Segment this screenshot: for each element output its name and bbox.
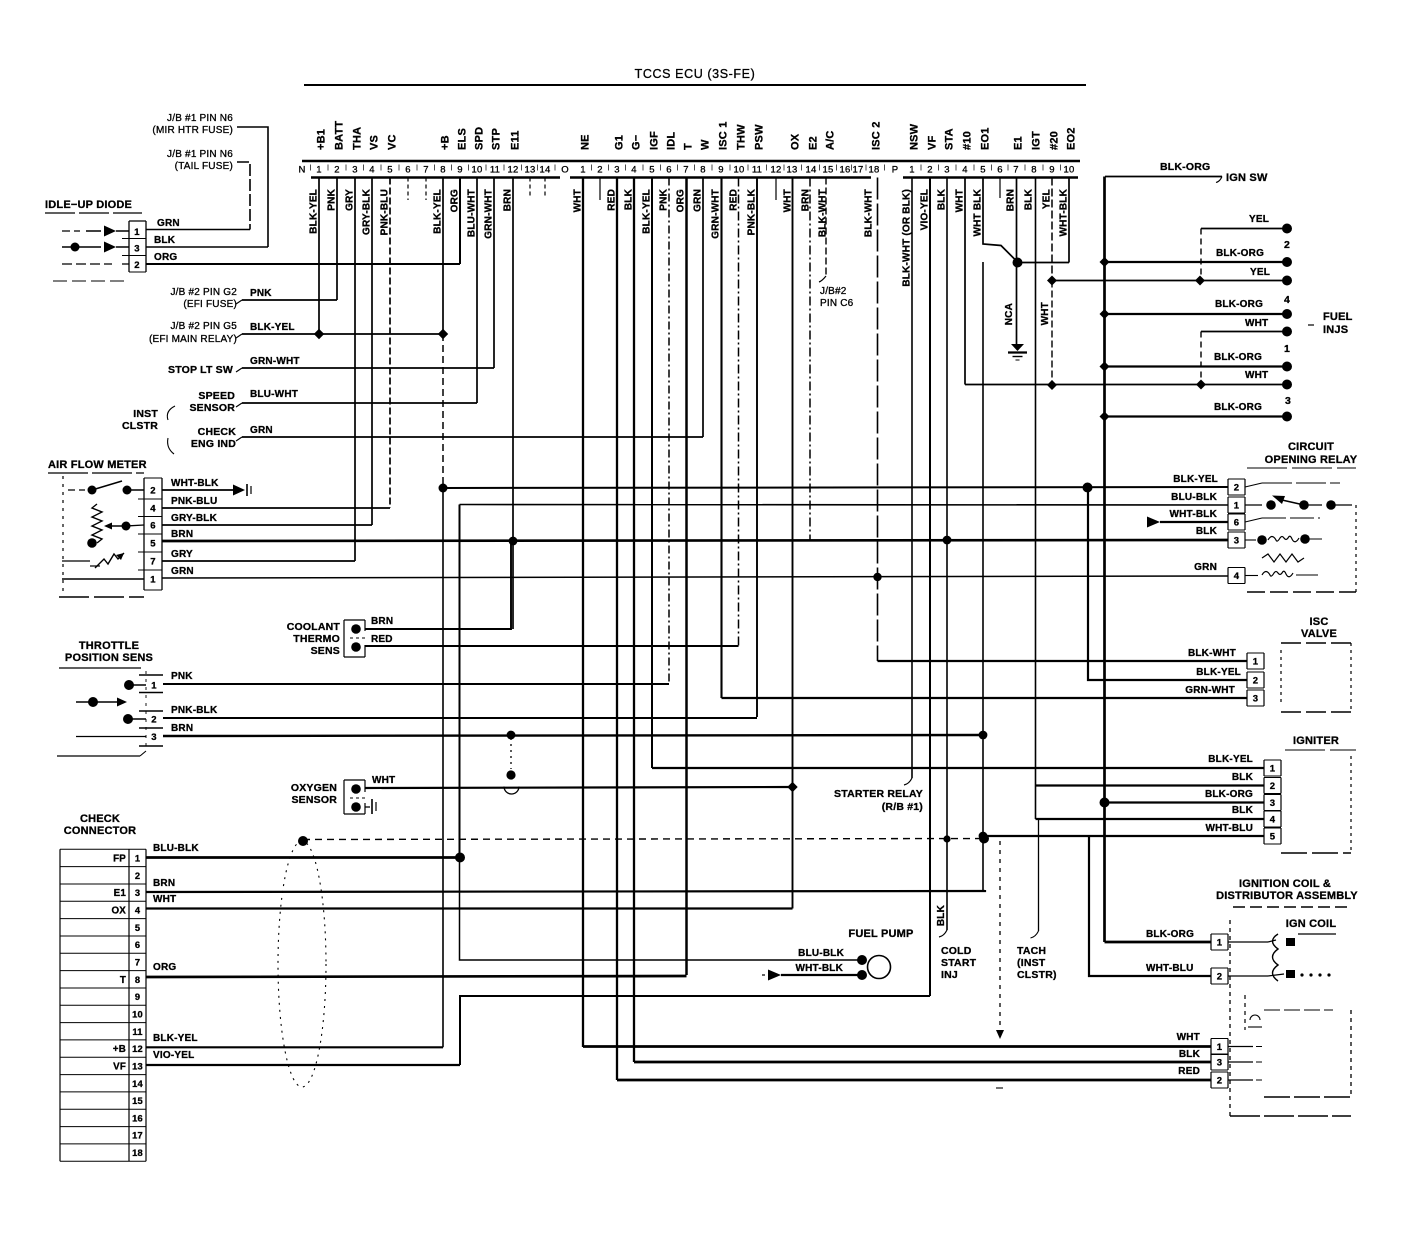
svg-text:WHT: WHT <box>1245 370 1268 381</box>
wire PNK IDL drop <box>668 178 670 684</box>
svg-text:GRY: GRY <box>345 189 356 211</box>
svg-text:G−: G− <box>631 135 643 150</box>
stub g2 pin2 <box>599 178 601 201</box>
svg-text:J/B #2 PIN G5: J/B #2 PIN G5 <box>170 321 237 332</box>
label ORG check <box>153 962 176 973</box>
svg-text:IDLE−UP DIODE: IDLE−UP DIODE <box>45 199 132 211</box>
svg-text:+B: +B <box>440 135 452 150</box>
pin separator ticks <box>310 165 312 171</box>
svg-text:2: 2 <box>1284 239 1290 251</box>
svg-text:BRN: BRN <box>1006 189 1017 211</box>
wire PNK-BLU pin5 VC drop <box>389 178 391 509</box>
STA hook to cold start inj <box>939 930 947 937</box>
svg-text:4: 4 <box>369 165 374 176</box>
svg-text:14: 14 <box>540 165 551 176</box>
svg-text:TCCS ECU (3S-FE): TCCS ECU (3S-FE) <box>635 67 756 81</box>
wire BLK-YEL to igniter pin1 <box>652 767 1264 769</box>
svg-text:(R/B #1): (R/B #1) <box>882 801 923 813</box>
label WHT-BLK relay <box>1170 509 1218 520</box>
svg-text:J/B #1 PIN N6: J/B #1 PIN N6 <box>167 113 233 124</box>
label BLK-WHT isc <box>1188 648 1236 659</box>
wire BLK-YEL IGF drop <box>651 178 653 769</box>
svg-text:WHT-BLK: WHT-BLK <box>1059 188 1070 236</box>
svg-text:T: T <box>683 143 695 150</box>
svg-text:GRN: GRN <box>250 425 273 436</box>
label BLU-BLK relay <box>1171 492 1217 503</box>
wire BRN pin12 E11 drop <box>512 178 514 630</box>
label RED dist <box>1178 1066 1200 1077</box>
ECU connector bar top line <box>302 160 1080 162</box>
wire ORG pin9 ELS drop <box>459 178 461 265</box>
wire MIR HTR FUSE to diode pin3 <box>237 127 268 247</box>
svg-text:3: 3 <box>1285 395 1291 407</box>
dashed drop arrow <box>996 1030 1004 1039</box>
svg-text:BLK-WHT: BLK-WHT <box>1188 648 1236 659</box>
svg-text:+B: +B <box>113 1044 126 1055</box>
svg-text:WHT: WHT <box>1245 318 1268 329</box>
svg-text:14: 14 <box>806 165 817 176</box>
svg-text:1: 1 <box>1217 938 1223 949</box>
check connector signal names <box>111 853 126 1072</box>
label GRN-WHT isc <box>1185 685 1235 696</box>
svg-text:2: 2 <box>1217 1076 1222 1087</box>
label PNK efi fuse <box>250 288 272 299</box>
NSW hook to starter relay <box>904 778 912 785</box>
svg-text:PNK-BLK: PNK-BLK <box>747 188 758 235</box>
idle-up box lower dash <box>53 280 129 282</box>
svg-text:9: 9 <box>718 165 723 176</box>
svg-text:2: 2 <box>334 165 339 176</box>
svg-text:WHT-BLK: WHT-BLK <box>1170 509 1218 520</box>
junction TPS BRN / shield <box>507 731 516 740</box>
label WHT-BLK air flow <box>171 478 219 489</box>
wire WHT OX drop <box>792 178 794 788</box>
svg-text:13: 13 <box>525 165 536 176</box>
label RED coolant <box>371 634 393 645</box>
label IGN COIL <box>1286 918 1337 930</box>
AIR FLOW METER underline <box>48 472 144 474</box>
wire GRN-WHT ISC1 drop <box>720 178 722 699</box>
label WHT-BLK pump <box>796 963 844 974</box>
wire BLK-WHT NSW drop <box>911 178 913 779</box>
svg-text:9: 9 <box>457 165 462 176</box>
wire BLK-ORG main vertical <box>1103 177 1106 943</box>
air flow box outline <box>62 476 64 592</box>
svg-text:VF: VF <box>927 135 939 150</box>
svg-text:WHT: WHT <box>372 775 395 786</box>
svg-text:BLK: BLK <box>1232 805 1254 816</box>
junction #20 / injector YEL row <box>1047 276 1057 286</box>
svg-text:WHT: WHT <box>1177 1032 1200 1043</box>
svg-text:BLK-YEL: BLK-YEL <box>250 322 295 333</box>
label 1 <box>1284 343 1290 355</box>
svg-text:BLK-ORG: BLK-ORG <box>1146 929 1194 940</box>
svg-text:(EFI FUSE): (EFI FUSE) <box>183 299 237 310</box>
svg-text:YEL: YEL <box>1250 267 1270 278</box>
label COOLANT THERMO SENS <box>287 621 341 657</box>
wire WHT OX to check connector <box>792 787 794 909</box>
wire PNK efi fuse to BATT <box>242 299 337 301</box>
svg-text:AIR FLOW METER: AIR FLOW METER <box>48 459 147 471</box>
svg-text:CHECK: CHECK <box>198 426 237 438</box>
label WHT dist <box>1177 1032 1200 1043</box>
svg-text:1: 1 <box>134 227 140 238</box>
wire PNK-BLK TPS pin2 to PSW <box>163 717 757 719</box>
wire GRN air flow pin1 row to relay pin4 <box>162 576 1228 578</box>
label 4 <box>1284 294 1290 306</box>
wire WHT-BLU to igniter pin5 <box>983 835 1264 837</box>
svg-text:1: 1 <box>1253 657 1259 668</box>
label GRY-BLK air flow <box>171 513 218 524</box>
air flow pin1 lead <box>62 578 144 580</box>
svg-text:12: 12 <box>132 1044 143 1054</box>
svg-text:WHT: WHT <box>955 189 966 212</box>
wire GRN-WHT pin11 STP drop <box>493 178 495 369</box>
svg-text:THW: THW <box>736 124 748 150</box>
TPS left leads <box>124 680 134 690</box>
svg-text:PNK: PNK <box>250 288 272 299</box>
svg-text:CONNECTOR: CONNECTOR <box>64 825 137 837</box>
wire ORG check T <box>146 976 687 977</box>
svg-text:(MIR HTR FUSE): (MIR HTR FUSE) <box>152 125 233 136</box>
injector pwr BLK-ORG inj3 row <box>1105 415 1288 417</box>
relay title underline <box>1247 467 1356 469</box>
label SPEED SENSOR <box>189 390 235 414</box>
label WHT mid <box>1040 302 1051 325</box>
label BLK cold start wire <box>936 904 947 926</box>
svg-text:9: 9 <box>1049 165 1054 176</box>
stub g3 pin6 <box>999 178 1001 199</box>
svg-text:SENSOR: SENSOR <box>189 402 235 414</box>
wire BLK to igniter pin4 <box>1036 818 1265 820</box>
svg-text:5: 5 <box>649 165 654 176</box>
wire BLK-WHT ISC2 drop <box>877 178 879 662</box>
svg-text:6: 6 <box>135 940 140 950</box>
wire GRY air flow pin7 to THA <box>162 560 355 562</box>
check connector pin numbers <box>132 853 143 1158</box>
TPS pin numbers <box>151 681 157 744</box>
svg-text:12: 12 <box>508 165 519 176</box>
svg-text:4: 4 <box>150 504 156 515</box>
injector sig WHT inj1 row <box>1201 331 1287 333</box>
injector wire labels <box>1214 214 1270 413</box>
svg-text:BLU-BLK: BLU-BLK <box>1171 492 1217 503</box>
svg-text:THA: THA <box>352 127 364 150</box>
stub pin13 <box>529 178 531 199</box>
svg-text:BLK-YEL: BLK-YEL <box>1196 667 1241 678</box>
label CHECK ENG IND <box>191 426 236 450</box>
injector sig WHT inj3 row <box>965 384 1287 386</box>
svg-text:3: 3 <box>1217 1058 1222 1069</box>
svg-text:BLK-WHT (OR BLK): BLK-WHT (OR BLK) <box>902 189 913 287</box>
svg-text:7: 7 <box>1013 165 1018 176</box>
label PNK tps <box>171 671 193 682</box>
wire TAIL FUSE to diode pin1 <box>237 162 250 230</box>
svg-text:BRN: BRN <box>171 529 193 540</box>
junction efi relay / +B <box>438 329 448 339</box>
svg-text:IGNITER: IGNITER <box>1293 735 1339 747</box>
svg-text:(INST: (INST <box>1017 957 1046 969</box>
ign coil symbol <box>1273 934 1279 981</box>
svg-text:18: 18 <box>869 165 880 176</box>
svg-text:VF: VF <box>113 1061 126 1072</box>
svg-text:BRN: BRN <box>153 878 175 889</box>
wire PNK-BLU air flow pin4 to VC <box>162 507 390 509</box>
svg-text:ELS: ELS <box>457 128 469 150</box>
svg-text:6: 6 <box>997 165 1002 176</box>
svg-text:1: 1 <box>135 853 140 863</box>
svg-text:WHT: WHT <box>1040 302 1051 325</box>
svg-text:E1: E1 <box>114 888 127 899</box>
wire GRY-BLK air flow pin6 to VS <box>162 524 372 526</box>
ISC pin boxes <box>1247 652 1264 654</box>
igniter pin boxes <box>1264 759 1281 761</box>
stub pin7 <box>425 178 427 201</box>
label 2 <box>1284 239 1290 251</box>
label BLK igniter2 <box>1232 772 1254 783</box>
label BLK-YEL check <box>153 1033 198 1044</box>
relay switch contact <box>1245 504 1262 506</box>
label WHT-BLU igniter <box>1206 823 1254 834</box>
wire EO1 ground branch down <box>982 262 984 890</box>
junction +B / relay wire <box>439 484 448 493</box>
svg-text:16: 16 <box>132 1113 143 1123</box>
svg-text:5: 5 <box>135 923 140 933</box>
wire WHT-BLK EO1 drop <box>983 178 1018 263</box>
diode symbol pin3 <box>104 242 116 253</box>
svg-text:3: 3 <box>135 888 140 898</box>
svg-text:PSW: PSW <box>754 124 766 150</box>
svg-text:W: W <box>700 139 712 150</box>
svg-text:PIN C6: PIN C6 <box>820 298 854 309</box>
svg-text:10: 10 <box>1064 165 1075 176</box>
label BLK idle-up <box>154 235 176 246</box>
air flow pin numbers <box>150 486 156 586</box>
igniter underline <box>1285 749 1356 751</box>
air flow connector box <box>143 478 145 590</box>
svg-text:BLK: BLK <box>1024 188 1035 210</box>
label BLU-BLK check <box>153 843 199 854</box>
svg-text:RED: RED <box>371 634 393 645</box>
wire BLK STA drop <box>946 178 948 931</box>
svg-text:4: 4 <box>135 905 141 915</box>
junction BLU-BLK / relay-pump wire <box>455 853 465 863</box>
svg-text:BLK-ORG: BLK-ORG <box>1214 352 1262 363</box>
label GRN idle-up <box>157 218 180 229</box>
relay box right <box>1355 505 1357 592</box>
svg-text:4: 4 <box>1284 294 1290 306</box>
svg-text:BLK: BLK <box>1232 772 1254 783</box>
svg-text:VIO-YEL: VIO-YEL <box>920 189 931 230</box>
wire VIO-YEL VF drop <box>929 178 931 997</box>
oxygen connector box <box>344 779 365 781</box>
svg-text:BLK-ORG: BLK-ORG <box>1216 248 1264 259</box>
idle-up pin2 lead <box>122 263 129 265</box>
svg-text:8: 8 <box>135 975 140 985</box>
label IGN SW <box>1226 172 1268 184</box>
svg-text:CHECK: CHECK <box>80 813 120 825</box>
svg-text:OXYGEN: OXYGEN <box>291 782 337 794</box>
assembly box left <box>1229 920 1231 1116</box>
wire RED THW drop <box>738 178 740 647</box>
svg-text:PNK-BLU: PNK-BLU <box>380 189 391 235</box>
svg-text:G1: G1 <box>614 135 626 150</box>
svg-text:3: 3 <box>1253 694 1258 705</box>
svg-text:RED: RED <box>1178 1066 1200 1077</box>
svg-text:4: 4 <box>1234 571 1240 582</box>
label WHT oxygen <box>372 775 395 786</box>
junction STA / relay BLK row <box>943 536 952 545</box>
distributor pin stubs <box>1228 1046 1253 1048</box>
svg-text:BRN: BRN <box>371 616 393 627</box>
svg-text:BLK-ORG: BLK-ORG <box>1215 299 1263 310</box>
label GRN check eng <box>250 425 273 436</box>
junction ISC2 / GRN row <box>873 573 881 581</box>
svg-text:4: 4 <box>631 165 636 176</box>
svg-text:CLSTR: CLSTR <box>122 420 158 432</box>
label BRN tps <box>171 723 193 734</box>
svg-text:BLK-YEL: BLK-YEL <box>153 1033 198 1044</box>
svg-text:O: O <box>561 165 569 176</box>
svg-text:SENS: SENS <box>311 645 340 657</box>
ign coil pin boxes <box>1211 933 1228 935</box>
wire WHT NE drop <box>582 178 584 1048</box>
svg-text:5: 5 <box>980 165 985 176</box>
svg-text:PNK: PNK <box>171 671 193 682</box>
svg-text:GRN-WHT: GRN-WHT <box>1185 685 1235 696</box>
svg-text:1: 1 <box>1270 764 1276 775</box>
svg-text:6: 6 <box>405 165 410 176</box>
svg-text:BLK-YEL: BLK-YEL <box>1173 474 1218 485</box>
svg-text:2: 2 <box>927 165 932 176</box>
wire WHT-BLK EO2 drop <box>1068 178 1070 263</box>
injector pwr BLK-ORG inj4 row <box>1105 313 1288 315</box>
svg-text:IGF: IGF <box>649 131 661 150</box>
wire WHT-BLK relay pin6 <box>1160 521 1228 523</box>
wire EO2 row to ground node <box>1018 262 1070 264</box>
svg-text:3: 3 <box>151 732 156 743</box>
label BLK relay <box>1196 526 1218 537</box>
label BLK-YEL efi relay <box>250 322 295 333</box>
svg-text:IGN COIL: IGN COIL <box>1286 918 1337 930</box>
svg-text:8: 8 <box>1031 165 1036 176</box>
wire dashed drop to distributor <box>999 841 1001 1030</box>
stub pin6 <box>407 178 409 201</box>
air flow potentiometer <box>92 504 102 543</box>
label BLK-YEL isc <box>1196 667 1241 678</box>
label INST CLSTR <box>122 408 158 432</box>
INST CLSTR brace <box>167 406 175 454</box>
svg-text:1: 1 <box>150 575 156 586</box>
TPS connector ticks <box>139 674 163 676</box>
wire RED G1 to distributor <box>617 1079 1211 1082</box>
label CHECK CONNECTOR <box>64 813 137 837</box>
A/C hook to J/B <box>819 276 826 282</box>
svg-text:ORG: ORG <box>676 189 687 212</box>
junction dashed row start <box>298 836 308 846</box>
svg-text:17: 17 <box>132 1131 143 1141</box>
svg-text:GRN: GRN <box>157 218 180 229</box>
svg-text:BLK-ORG: BLK-ORG <box>1214 402 1262 413</box>
wire BLU-WHT speed sensor to SPD <box>242 402 477 404</box>
wire BLK G- to distributor <box>634 1061 1211 1064</box>
wire WHT oxygen to OX <box>365 787 793 788</box>
label FUEL PUMP <box>848 928 913 940</box>
svg-text:ORG: ORG <box>153 962 176 973</box>
inj1 dashed branch <box>1200 332 1202 385</box>
stub g2 pin12 <box>775 178 777 201</box>
svg-text:14: 14 <box>132 1079 143 1089</box>
svg-text:STA: STA <box>944 128 956 150</box>
svg-text:E1: E1 <box>1013 136 1025 150</box>
wire BLK idle-up pin3 <box>146 246 268 248</box>
svg-text:T: T <box>120 975 126 986</box>
svg-text:GRN: GRN <box>1194 562 1217 573</box>
wire BLK-YEL to relay pin2 <box>443 487 1228 488</box>
wire GRN W drop <box>702 178 704 438</box>
svg-text:INJS: INJS <box>1323 324 1348 336</box>
wire BLK-WHT to ISC pin1 <box>878 660 1248 662</box>
wire BLU-BLK relay to fuel pump <box>459 505 461 858</box>
junction BRN drop / air flow BRN row <box>509 537 517 545</box>
svg-text:WHT: WHT <box>153 894 176 905</box>
svg-text:10: 10 <box>132 1009 143 1019</box>
igniter box <box>1281 852 1351 854</box>
svg-text:2: 2 <box>151 715 156 726</box>
wire BRN air flow pin5 row to relay pin3 <box>162 540 1228 541</box>
svg-text:2: 2 <box>134 260 139 271</box>
wire WHT segment below #20 <box>1051 281 1053 386</box>
svg-text:1: 1 <box>909 165 914 176</box>
wire NSW dashed row <box>303 839 984 840</box>
svg-text:BRN: BRN <box>171 723 193 734</box>
svg-text:GRY-BLK: GRY-BLK <box>362 188 373 235</box>
svg-text:5: 5 <box>150 539 156 550</box>
svg-text:12: 12 <box>771 165 782 176</box>
svg-text:3: 3 <box>944 165 949 176</box>
wire GRN-WHT stop lt sw to STP <box>242 367 494 369</box>
junction OX / oxygen sensor row <box>787 782 797 792</box>
FUEL INJS brace tick <box>1308 324 1314 326</box>
svg-text:6: 6 <box>150 521 155 532</box>
svg-text:7: 7 <box>423 165 428 176</box>
svg-text:(EFI MAIN RELAY): (EFI MAIN RELAY) <box>149 334 237 345</box>
svg-text:BLU-WHT: BLU-WHT <box>250 389 298 400</box>
label NCA <box>1004 303 1015 325</box>
svg-text:BLK-YEL: BLK-YEL <box>642 189 653 234</box>
wire GRN idle-up pin1 <box>146 229 250 231</box>
svg-text:BLK-YEL: BLK-YEL <box>1208 754 1253 765</box>
label GRN relay <box>1194 562 1217 573</box>
svg-text:GRY-BLK: GRY-BLK <box>171 513 218 524</box>
svg-text:NSW: NSW <box>909 123 921 150</box>
wire VIO-YEL check VF <box>146 1064 460 1066</box>
inj2 dashed branch <box>1200 229 1202 281</box>
svg-text:BLK-ORG: BLK-ORG <box>1205 789 1253 800</box>
svg-text:E11: E11 <box>510 130 522 150</box>
label BLK igniter4 <box>1232 805 1254 816</box>
wire WHT #10 drop <box>964 178 966 384</box>
wire WHT-BLU to ign coil pin2 <box>1089 836 1211 976</box>
label WHT check <box>153 894 176 905</box>
svg-text:J/B #1 PIN N6: J/B #1 PIN N6 <box>167 149 233 160</box>
svg-text:15: 15 <box>823 165 834 176</box>
label BRN air flow <box>171 529 193 540</box>
wire BLU-BLK pump feed <box>460 858 863 961</box>
svg-text:15: 15 <box>132 1096 143 1106</box>
relay coil2 <box>1245 575 1258 577</box>
svg-text:BLK-WHT: BLK-WHT <box>818 189 829 237</box>
